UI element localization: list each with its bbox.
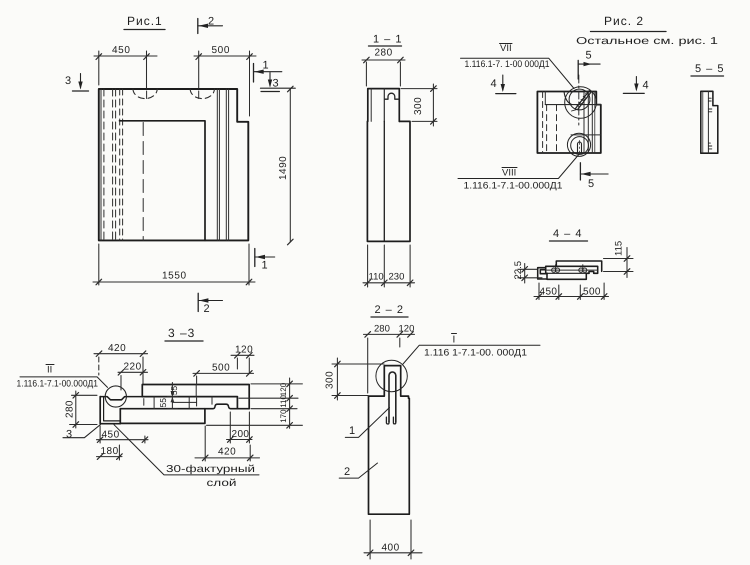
right stacked dims 120 110 170 bbox=[207, 378, 303, 428]
dim 180 bbox=[97, 445, 123, 460]
middle strip top edge with key dip bbox=[100, 397, 142, 400]
divider in top strip bbox=[195, 385, 197, 397]
svg-text:1: 1 bbox=[349, 425, 355, 437]
wire: centre dash line upper bbox=[578, 75, 580, 125]
section marker 2 top bbox=[198, 16, 223, 34]
svg-text:4: 4 bbox=[643, 80, 649, 92]
dim 115 right bbox=[604, 248, 634, 278]
svg-text:2 – 2: 2 – 2 bbox=[375, 304, 404, 316]
middle strip dividers bbox=[153, 397, 155, 409]
title 2-2 bbox=[371, 304, 408, 317]
svg-text:450: 450 bbox=[112, 45, 131, 56]
dim 1490 right bbox=[288, 86, 294, 245]
svg-text:280: 280 bbox=[375, 48, 393, 59]
dim 280 left bbox=[70, 391, 97, 428]
section marker 5 bottom bbox=[580, 163, 608, 190]
svg-text:2: 2 bbox=[344, 466, 350, 478]
bolt pair right bbox=[579, 265, 587, 272]
svg-text:Рис.1: Рис.1 bbox=[127, 14, 163, 28]
svg-text:3: 3 bbox=[65, 75, 71, 87]
shape: stem + body bbox=[369, 366, 410, 515]
svg-text:1: 1 bbox=[263, 60, 269, 72]
callout VII label bbox=[461, 43, 575, 89]
left bracket bbox=[100, 397, 120, 424]
svg-text:2: 2 bbox=[204, 303, 210, 315]
dim 450 top bbox=[94, 51, 157, 88]
dim 120 top bbox=[231, 353, 254, 374]
svg-text:1.116.1-7.1-00.000Д1: 1.116.1-7.1-00.000Д1 bbox=[464, 181, 563, 192]
dim 110 230 bottom bbox=[363, 245, 415, 287]
dim 300 left bbox=[332, 358, 384, 400]
dim 300 right bbox=[401, 84, 437, 126]
svg-text:3 –3: 3 –3 bbox=[168, 326, 195, 340]
dim 22.5 left bbox=[518, 264, 542, 284]
section marker 3 right bbox=[261, 73, 296, 92]
svg-text:1.116 1-7.1-00. 000Д1: 1.116 1-7.1-00. 000Д1 bbox=[424, 348, 527, 359]
shape bbox=[701, 91, 718, 153]
dim 1550 bottom bbox=[93, 244, 255, 285]
top slab rect bbox=[556, 261, 601, 271]
svg-text:300: 300 bbox=[413, 97, 424, 115]
middle bar bbox=[546, 266, 598, 273]
dims 450 500 bottom bbox=[534, 283, 609, 300]
svg-text:500: 500 bbox=[583, 287, 601, 298]
svg-text:2: 2 bbox=[208, 16, 214, 28]
title 4-4 bbox=[550, 228, 588, 241]
title 1-1 bbox=[369, 34, 403, 47]
svg-text:5: 5 bbox=[588, 178, 594, 190]
wire: hidden dashed verticals left bbox=[103, 89, 105, 240]
callout II label bbox=[17, 365, 108, 390]
wire: 500 right extension down bbox=[249, 58, 251, 116]
loop end view in VIII bbox=[578, 142, 582, 153]
svg-text:5: 5 bbox=[586, 50, 592, 62]
dims 55 55 bbox=[168, 383, 178, 409]
label 2 leader bbox=[339, 463, 377, 478]
svg-text:500: 500 bbox=[212, 363, 230, 374]
dim 420 bottom bbox=[195, 426, 260, 461]
svg-text:420: 420 bbox=[218, 447, 236, 458]
wire: inner recess corner bbox=[120, 121, 206, 241]
anchor loop VII (diagonal) bbox=[572, 91, 592, 111]
callout I label bbox=[403, 334, 540, 365]
svg-text:3: 3 bbox=[66, 429, 72, 441]
svg-text:1: 1 bbox=[262, 260, 268, 272]
svg-text:280: 280 bbox=[374, 324, 390, 335]
lifting pocket arc (dashed) right bbox=[190, 89, 214, 99]
lifting loop rods bbox=[386, 372, 395, 424]
section marker 4 left bbox=[491, 75, 516, 94]
title Рис. 2 bbox=[591, 14, 667, 32]
section marker 4 right bbox=[623, 77, 648, 94]
svg-text:слой: слой bbox=[207, 478, 237, 489]
section mark 3 bbox=[63, 425, 101, 441]
svg-text:450: 450 bbox=[102, 430, 120, 441]
wire: lifting pocket top bbox=[564, 92, 572, 105]
wire: vertical band line (top) bbox=[544, 92, 546, 105]
dim 420 top bbox=[94, 351, 148, 384]
wire: lower pocket line bbox=[571, 134, 601, 136]
svg-text:420: 420 bbox=[108, 343, 126, 354]
svg-text:230: 230 bbox=[389, 272, 405, 283]
shape top part bbox=[368, 89, 400, 122]
wire: left edge inner double line bbox=[100, 89, 102, 240]
leader 30-фактурный слой bbox=[114, 425, 259, 489]
panel outline bbox=[537, 92, 600, 154]
bottom strip bbox=[120, 409, 205, 424]
shape lower part bbox=[367, 121, 410, 241]
title Рис.1 bbox=[124, 14, 165, 30]
svg-text:30-фактурный: 30-фактурный bbox=[166, 464, 255, 475]
svg-text:22.5: 22.5 bbox=[513, 261, 524, 280]
dim 280 120 top bbox=[364, 332, 415, 393]
bolt pair left bbox=[552, 265, 560, 272]
svg-text:200: 200 bbox=[232, 429, 250, 440]
dim 400 bottom bbox=[364, 520, 422, 559]
dim 200 bbox=[227, 412, 253, 443]
section marker 3 left bbox=[65, 74, 89, 92]
dim 280 bbox=[362, 57, 405, 86]
detail circle II bbox=[105, 386, 126, 407]
section marker 5 top bbox=[578, 50, 600, 80]
detail circle I bbox=[376, 360, 407, 391]
svg-text:115: 115 bbox=[614, 241, 625, 256]
svg-text:120: 120 bbox=[279, 382, 288, 396]
top strip bbox=[142, 385, 249, 409]
middle strip bottom edge with groove bump bbox=[120, 404, 237, 409]
svg-text:120: 120 bbox=[399, 324, 415, 335]
wire: dashed hidden verticals bbox=[542, 92, 544, 154]
svg-text:110: 110 bbox=[279, 394, 288, 407]
title 3-3 bbox=[165, 326, 203, 341]
svg-text:I: I bbox=[453, 335, 456, 346]
svg-text:1550: 1550 bbox=[162, 271, 187, 282]
rebar with end tick bbox=[172, 398, 196, 406]
svg-text:450: 450 bbox=[540, 287, 558, 298]
left bracket bbox=[538, 268, 547, 279]
svg-text:55: 55 bbox=[158, 398, 168, 408]
svg-text:120: 120 bbox=[235, 345, 253, 356]
svg-text:220: 220 bbox=[124, 362, 142, 373]
svg-text:280: 280 bbox=[65, 400, 76, 418]
dim 220 bbox=[118, 370, 148, 391]
svg-text:110: 110 bbox=[369, 272, 384, 283]
dim 500 top bbox=[193, 371, 254, 384]
bottom bar bbox=[547, 273, 589, 279]
dim 500 top bbox=[194, 51, 256, 88]
svg-text:55: 55 bbox=[169, 386, 179, 396]
loop glyph in pocket bbox=[385, 93, 399, 99]
svg-text:180: 180 bbox=[101, 446, 119, 457]
svg-text:400: 400 bbox=[382, 543, 400, 554]
section marker 1 bottom right bbox=[255, 249, 275, 272]
wire: right band double lines bbox=[216, 89, 218, 240]
svg-text:300: 300 bbox=[325, 371, 336, 389]
title 5-5 bbox=[691, 63, 724, 76]
panel outline bbox=[99, 89, 249, 240]
svg-text:Остальное см. рис. 1: Остальное см. рис. 1 bbox=[576, 36, 719, 47]
svg-text:1490: 1490 bbox=[278, 156, 289, 180]
callout VIII label bbox=[458, 155, 579, 192]
svg-text:1.116.1-7.1-00.000Д1: 1.116.1-7.1-00.000Д1 bbox=[17, 379, 99, 390]
svg-text:II: II bbox=[47, 365, 52, 376]
svg-text:VIII: VIII bbox=[502, 168, 516, 179]
dim 450 bottom left bbox=[97, 426, 149, 443]
wire: inner horizontal band line bbox=[545, 104, 601, 106]
detail circles VIII bbox=[571, 137, 589, 155]
svg-text:4: 4 bbox=[491, 78, 497, 90]
svg-text:500: 500 bbox=[212, 45, 231, 56]
detail circles VII bbox=[569, 89, 590, 110]
svg-text:1 – 1: 1 – 1 bbox=[373, 34, 402, 46]
section marker 1 top right bbox=[254, 60, 282, 83]
label 1 leader bbox=[345, 408, 389, 438]
svg-text:Рис. 2: Рис. 2 bbox=[604, 14, 644, 28]
svg-text:4 – 4: 4 – 4 bbox=[553, 228, 582, 240]
anchor marks bbox=[708, 98, 711, 149]
wire: long-dash hidden line bbox=[142, 123, 144, 241]
svg-text:5 – 5: 5 – 5 bbox=[695, 63, 724, 75]
svg-text:1.116.1-7. 1-00 000Д1: 1.116.1-7. 1-00 000Д1 bbox=[465, 59, 550, 70]
wire: right band verticals bbox=[583, 92, 585, 154]
joint line through bar bbox=[547, 269, 598, 271]
section marker 2 bottom bbox=[198, 293, 222, 315]
lifting pocket arc (dashed) left bbox=[133, 89, 157, 99]
svg-text:VII: VII bbox=[500, 43, 512, 54]
svg-text:170: 170 bbox=[279, 409, 288, 423]
